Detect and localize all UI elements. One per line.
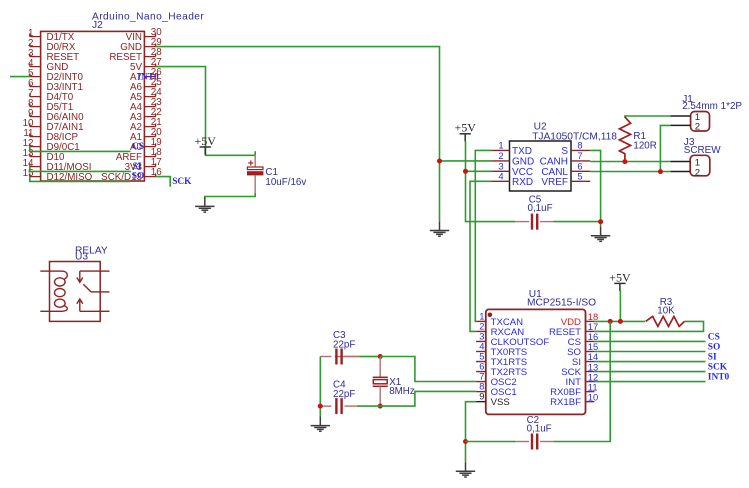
junction VDD rail xyxy=(608,319,613,324)
U1 pin1 dot xyxy=(488,313,493,318)
wire +5V to VCC and C5 xyxy=(466,141,516,221)
svg-text:CS: CS xyxy=(708,332,720,342)
svg-text:10: 10 xyxy=(588,391,598,402)
svg-text:10uF/16v: 10uF/16v xyxy=(265,177,306,188)
wire C3 row to X1 junction xyxy=(335,356,380,358)
U2 pin 1 TXD xyxy=(492,139,533,157)
junction C2 left xyxy=(463,439,468,444)
junction C4 left xyxy=(318,404,323,409)
U1 pin 8 OSC1 xyxy=(476,381,517,399)
svg-text:SCK: SCK xyxy=(172,177,192,187)
pin 29 GND xyxy=(120,37,161,53)
net label INT0 right xyxy=(708,373,730,383)
pin 23 A4 xyxy=(130,97,162,113)
svg-text:CANH: CANH xyxy=(540,157,568,168)
pin 9 D6/AIN0 xyxy=(28,108,84,123)
U1 pin 1 TXCAN xyxy=(476,310,523,328)
label R3 value xyxy=(657,297,675,316)
power flag +5V near C1 xyxy=(194,134,216,155)
svg-text:7: 7 xyxy=(577,150,582,161)
wire C2 left xyxy=(466,441,516,443)
svg-text:+5V: +5V xyxy=(454,121,476,135)
label C3 value xyxy=(333,330,355,351)
net label SCK right xyxy=(708,363,728,373)
pin 3 RESET xyxy=(28,48,79,63)
pin 1 D1/TX xyxy=(28,28,75,43)
junction C5 S ground xyxy=(598,219,603,224)
wire X1 bottom to OSC1 xyxy=(380,391,476,406)
wire U1 INT net INT0 xyxy=(594,381,705,383)
pin 27 5V xyxy=(130,57,162,73)
pin 8 D5/T1 xyxy=(28,98,73,113)
ground for U2 S / C5 xyxy=(591,227,610,242)
pin 20 A1 xyxy=(130,127,162,143)
svg-text:Arduino_Nano_Header: Arduino_Nano_Header xyxy=(92,12,204,23)
relay U3 switch contacts xyxy=(77,271,100,311)
wire C3 C4 left rail xyxy=(319,357,321,417)
U1 pin 10 RX1BF xyxy=(550,391,598,408)
net label CS on pin 19 xyxy=(132,142,144,152)
capacitor C4 xyxy=(320,398,357,414)
svg-text:VSS: VSS xyxy=(491,397,510,408)
power flag +5V near U1 xyxy=(609,270,631,291)
wire VCC stub xyxy=(466,170,492,172)
svg-text:RXD: RXD xyxy=(512,177,533,188)
wire pin27 5V down to C1 top xyxy=(156,67,256,156)
resistor R3 xyxy=(646,316,685,326)
pin 6 D3/INT1 xyxy=(28,78,83,93)
wire VDD row xyxy=(594,320,645,322)
label C1 value xyxy=(265,167,306,188)
power flag +5V near U2 xyxy=(454,121,476,142)
svg-text:2: 2 xyxy=(695,167,700,178)
U1 pin 9 VSS xyxy=(476,391,510,409)
wire U2 CANH to J3 pin1 xyxy=(590,161,670,163)
label U2 title xyxy=(532,122,617,143)
ground for VSS / C2 xyxy=(456,462,475,477)
svg-text:1: 1 xyxy=(498,139,503,150)
net label SO right xyxy=(708,342,721,352)
pin 19 A0 xyxy=(130,137,162,153)
pin 21 A2 xyxy=(130,117,162,133)
label J1 title xyxy=(682,94,742,112)
U2 pin 6 CANL xyxy=(541,160,590,178)
svg-text:8: 8 xyxy=(577,139,582,150)
U1 pin 12 INT xyxy=(566,371,599,388)
svg-text:J2: J2 xyxy=(92,20,103,31)
svg-text:22pF: 22pF xyxy=(333,389,355,400)
connector J1 xyxy=(671,112,710,133)
wire pin15 D12/MISO to SO xyxy=(30,177,130,182)
capacitor C1 xyxy=(247,155,263,192)
U1 pin 13 SCK xyxy=(561,361,598,378)
svg-text:S: S xyxy=(561,146,568,157)
svg-text:22pF: 22pF xyxy=(333,339,355,350)
pin 28 RESET xyxy=(109,47,162,63)
capacitor C3 xyxy=(320,349,359,365)
svg-text:10K: 10K xyxy=(657,305,675,316)
ic U1 MCP2515 box xyxy=(486,309,586,414)
ground for load caps xyxy=(311,417,330,432)
wire pin16 SCK/D13 to SCK label xyxy=(156,177,171,187)
junction R1 CANH xyxy=(622,159,627,164)
pin 5 D2/INT0 xyxy=(28,68,83,83)
relay U3 box xyxy=(50,262,101,322)
svg-text:SCK: SCK xyxy=(708,363,728,373)
wire U1 SI net SI xyxy=(594,361,705,363)
svg-text:120R: 120R xyxy=(633,141,656,152)
svg-text:SI: SI xyxy=(708,353,717,363)
wire J1 pin2 down to CANL xyxy=(660,125,670,171)
pin 2 D0/RX xyxy=(28,38,76,53)
U1 pin 3 CLKOUTSOF xyxy=(476,330,549,348)
wire VDD rail down to C2 xyxy=(553,321,610,441)
svg-text:SCREW: SCREW xyxy=(684,145,721,156)
pin 22 A3 xyxy=(130,107,162,123)
wire C3 right green xyxy=(359,356,380,358)
net label CS right xyxy=(708,332,720,342)
wire U2 GND to ground rail xyxy=(440,160,492,162)
wire U1 CS net CS xyxy=(594,340,705,342)
U1 pin 11 RX0BF xyxy=(550,381,597,398)
wire U2 TXD to U1 TXCAN xyxy=(475,150,491,321)
svg-text:2: 2 xyxy=(695,122,700,133)
pin 11 D8/ICP xyxy=(23,128,78,143)
wire U1 VSS down xyxy=(466,402,477,463)
wire +5V down to VDD xyxy=(619,291,621,322)
junction VDD +5V xyxy=(618,319,623,324)
wire U1 SCK net SCK xyxy=(594,371,705,373)
net label INT0 on pin 26 xyxy=(137,72,159,82)
U1 pin 14 SI xyxy=(572,351,598,368)
connector J2 Arduino_Nano_Header box xyxy=(41,31,145,181)
wire pin12 D9/0C1 to CS xyxy=(30,147,131,152)
U1 pin 7 OSC2 xyxy=(476,371,517,389)
pin 13 D10 xyxy=(23,148,65,163)
pin 26 A7 xyxy=(130,67,162,83)
svg-text:SO: SO xyxy=(708,342,721,352)
U1 pin 17 RESET xyxy=(549,321,598,338)
net label SI right xyxy=(708,353,717,363)
svg-text:0,1uF: 0,1uF xyxy=(528,203,553,214)
junction VCC +5V xyxy=(463,169,468,174)
svg-text:0,1uF: 0,1uF xyxy=(527,424,552,435)
pin 18 AREF xyxy=(116,147,162,163)
svg-text:2.54mm 1*2P: 2.54mm 1*2P xyxy=(682,101,742,112)
capacitor C5 xyxy=(515,214,553,230)
svg-text:GND: GND xyxy=(512,157,534,168)
relay U3 pins xyxy=(40,271,109,311)
svg-text:9: 9 xyxy=(479,391,484,402)
wire C5 right to S rail xyxy=(554,221,601,223)
svg-text:4: 4 xyxy=(498,170,503,181)
U2 pin 3 VCC xyxy=(492,160,534,178)
label C5 value xyxy=(528,195,553,215)
ic U2 TJA1050 box xyxy=(510,141,572,191)
junction X1 top xyxy=(378,354,383,359)
capacitor C2 xyxy=(515,434,553,450)
svg-text:2: 2 xyxy=(498,150,503,161)
svg-text:INT0: INT0 xyxy=(137,72,159,82)
svg-text:+: + xyxy=(248,158,254,170)
net label SCK xyxy=(172,177,192,187)
junction X1 bottom xyxy=(378,404,383,409)
pin 15 D12/MISO xyxy=(23,168,93,183)
relay U3 coil xyxy=(50,271,68,311)
U1 pin 4 TX0RTS xyxy=(476,340,527,358)
svg-text:5: 5 xyxy=(577,170,582,181)
junction U2 GND xyxy=(437,159,442,164)
wire pin14 D11/MOSI to SI xyxy=(30,167,131,172)
pin 16 SCK/D13 xyxy=(101,167,162,183)
svg-text:15: 15 xyxy=(23,168,34,179)
label C2 value xyxy=(527,415,552,435)
U2 pin 8 S xyxy=(561,139,590,157)
svg-text:SO: SO xyxy=(132,172,145,182)
label U1 title xyxy=(527,289,596,309)
label R1 value xyxy=(633,131,656,152)
wire pin29 GND to ground rail xyxy=(156,47,440,222)
pin 12 D9/0C1 xyxy=(23,138,80,153)
svg-text:+5V: +5V xyxy=(609,270,631,284)
pin 30 VIN xyxy=(126,27,163,43)
wire U1 SO net SO xyxy=(594,350,705,352)
U1 pin 6 TX2RTS xyxy=(476,361,527,379)
wire U2 S to ground xyxy=(590,150,600,226)
net label SI on pin 17 xyxy=(133,162,142,172)
U1 pin 15 SO xyxy=(567,341,598,358)
wire U2 RXD to U1 RXCAN xyxy=(470,181,492,331)
pin 10 D7/AIN1 xyxy=(23,118,84,133)
junction J1 CANL xyxy=(658,169,663,174)
U2 pin 5 VREF xyxy=(541,170,590,188)
svg-text:RX1BF: RX1BF xyxy=(550,397,581,408)
wire X1 top to OSC2 xyxy=(380,357,476,382)
net label SO on pin 16 xyxy=(132,172,145,182)
wire D2/INT0 pin5 to left edge xyxy=(10,76,30,78)
wire U2 CANL to J3 pin2 xyxy=(590,171,670,173)
svg-text:VREF: VREF xyxy=(541,177,568,188)
pin 17 3V3 xyxy=(125,157,162,173)
label U3 RELAY title xyxy=(75,246,108,263)
U1 pin 18 VDD xyxy=(561,311,599,328)
crystal X1 xyxy=(373,357,388,407)
label C4 value xyxy=(333,379,355,400)
label J3 title xyxy=(684,137,721,156)
pin 24 A5 xyxy=(130,87,162,103)
svg-text:+5V: +5V xyxy=(194,134,216,148)
ground for pin29 GND xyxy=(430,221,449,236)
label J2 title xyxy=(92,12,204,32)
svg-text:INT0: INT0 xyxy=(708,373,730,383)
U2 pin 7 CANH xyxy=(540,150,591,168)
connector J3 xyxy=(671,155,710,178)
wire C1 bottom to ground xyxy=(205,193,255,198)
U2 pin 2 GND xyxy=(492,150,535,168)
wire R3 to RESET xyxy=(594,321,703,331)
resistor R1 xyxy=(619,117,630,162)
ground for C1 xyxy=(195,197,214,212)
U1 pin 5 TX1RTS xyxy=(476,351,527,369)
U1 pin 2 RXCAN xyxy=(476,320,524,338)
pin 25 A6 xyxy=(130,77,162,93)
svg-text:8MHz: 8MHz xyxy=(389,386,415,397)
svg-text:MCP2515-I/SO: MCP2515-I/SO xyxy=(527,298,596,309)
pin 7 D4/T0 xyxy=(28,88,74,103)
svg-text:CS: CS xyxy=(132,142,144,152)
wire C4 right green xyxy=(357,405,380,407)
label X1 value xyxy=(389,377,415,397)
U1 pin 16 CS xyxy=(568,331,599,348)
svg-text:TXD: TXD xyxy=(512,146,532,157)
wire J1 pin1 to R1 top xyxy=(625,116,671,118)
pin 4 GND xyxy=(28,58,68,73)
pin 14 D11/MOSI xyxy=(23,158,92,173)
U2 pin 4 RXD xyxy=(492,170,534,188)
svg-text:SI: SI xyxy=(133,162,142,172)
